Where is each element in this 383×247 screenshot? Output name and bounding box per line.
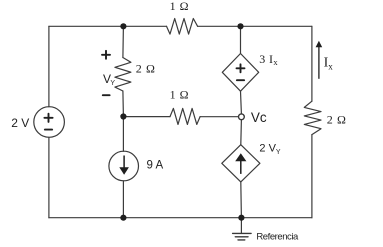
- svg-text:Vc: Vc: [251, 110, 267, 125]
- svg-text:Referencia: Referencia: [256, 232, 299, 243]
- svg-text:2 Ω: 2 Ω: [136, 61, 156, 75]
- svg-text:2 Ω: 2 Ω: [327, 113, 347, 127]
- svg-text:9 A: 9 A: [147, 159, 164, 171]
- svg-text:2 V: 2 V: [11, 116, 29, 130]
- svg-text:1 Ω: 1 Ω: [170, 88, 189, 102]
- svg-text:1 Ω: 1 Ω: [170, 0, 189, 13]
